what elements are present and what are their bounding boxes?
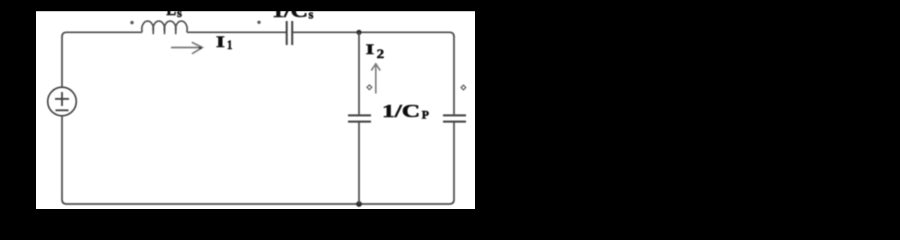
inductor Ls <box>142 21 187 34</box>
black mask bottom strip <box>0 209 900 211</box>
dot marker left of inductor <box>130 21 133 24</box>
diamond marker left <box>367 85 372 90</box>
wire node A to top-right corner <box>359 32 454 37</box>
wire left vertical lower <box>62 116 67 204</box>
capacitor right plates <box>443 115 466 121</box>
label Ls <box>166 2 182 20</box>
voltage source minus <box>56 109 69 111</box>
wire inductor to capacitor <box>187 31 286 33</box>
dot marker left of capacitor <box>257 21 260 24</box>
svg-text:2: 2 <box>377 46 385 61</box>
capacitor 1/Cs plates <box>287 21 293 45</box>
diamond marker right <box>461 85 466 90</box>
wire top left segment <box>62 32 142 37</box>
node A junction dot <box>356 30 361 35</box>
black mask left bar <box>0 0 36 211</box>
label I1 <box>216 34 232 52</box>
arrow I1 tip dot <box>199 47 202 50</box>
capacitor 1/Cp plates <box>348 115 371 121</box>
svg-text:1: 1 <box>227 37 232 52</box>
node B junction dot bottom <box>356 201 362 207</box>
label 1/Cp <box>382 101 429 122</box>
wire capacitor to node A <box>293 31 359 33</box>
wire middle branch lower <box>358 123 360 205</box>
voltage source circle <box>48 87 77 116</box>
wire right branch lower <box>450 123 455 205</box>
arrow I2 <box>371 64 380 94</box>
wire right branch upper <box>453 36 455 114</box>
svg-text:I: I <box>366 42 375 58</box>
wire middle branch upper <box>358 32 360 114</box>
svg-text:P: P <box>422 110 429 122</box>
black mask right region <box>475 0 900 211</box>
voltage source plus <box>55 92 69 106</box>
label 1/Cs <box>272 1 314 22</box>
svg-text:I: I <box>216 34 225 51</box>
wire bottom <box>66 203 450 205</box>
arrow I1 <box>171 42 202 54</box>
svg-text:1/C: 1/C <box>382 101 420 121</box>
label I2 <box>366 42 384 61</box>
white figure background <box>36 0 475 209</box>
wire left vertical upper <box>61 36 63 87</box>
black mask top bar <box>0 0 900 11</box>
